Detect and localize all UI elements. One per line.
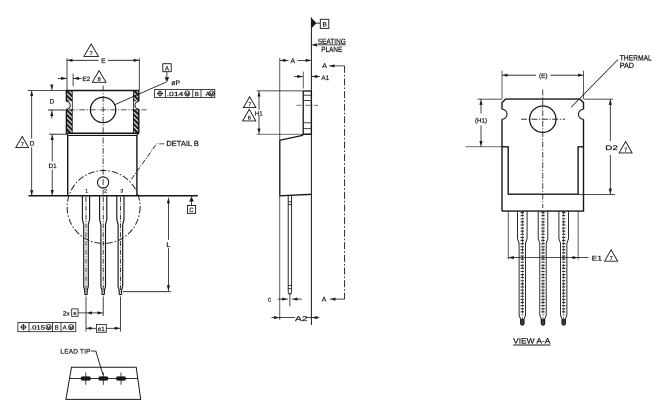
note triangle 7 (D) [16, 137, 29, 148]
mounting hole [90, 97, 115, 122]
svg-text:7: 7 [21, 142, 24, 148]
note triangle 7 (D2) [619, 142, 632, 153]
hole centerline in tab [297, 104, 319, 106]
datum A flag [163, 64, 171, 72]
note triangle 7 (E1) [605, 250, 618, 261]
detail B leader [131, 144, 165, 181]
svg-text:L: L [166, 242, 170, 249]
dimension D overall [31, 91, 33, 139]
vertical centerline [102, 86, 104, 195]
bottom view trapezoid [66, 367, 141, 399]
mounting hole [530, 106, 556, 132]
note triangle 7 (over E) [84, 44, 99, 56]
svg-text:A: A [291, 58, 296, 65]
dimension (H1) [478, 98, 503, 100]
svg-text:øP: øP [171, 80, 180, 87]
lead A-A 3 [559, 211, 569, 325]
svg-text:e: e [73, 311, 76, 317]
note triangle 8 (H1) [243, 109, 256, 121]
svg-text:E: E [101, 58, 106, 65]
lead cross-section 3 [116, 373, 127, 385]
horizontal centerline through hole [48, 109, 147, 111]
note triangle 7 (H1) [243, 97, 256, 108]
thermal pad leader [571, 60, 618, 108]
body bottom / datum C line [29, 195, 198, 197]
tab top extension to D dim [28, 90, 67, 92]
notch right [579, 109, 584, 119]
svg-text:D2: D2 [605, 145, 618, 152]
tab side profile [303, 91, 311, 134]
tab bottom edge [66, 132, 138, 134]
thermal pad outline [502, 147, 584, 194]
dimension L [167, 198, 169, 240]
lead tip leader [91, 351, 103, 375]
svg-text:2: 2 [104, 189, 107, 195]
body outline [66, 133, 138, 135]
svg-text:M: M [185, 91, 189, 96]
dimension H1 [257, 90, 303, 92]
svg-text:8: 8 [248, 116, 251, 122]
detail B circle (phantom) [67, 171, 140, 244]
svg-text:E2: E2 [82, 76, 90, 83]
lower plastic hole [98, 177, 109, 188]
notch left (white cut + arc) [66, 101, 73, 109]
svg-text:D1: D1 [49, 163, 58, 170]
svg-text:7: 7 [90, 51, 93, 57]
svg-text:A1: A1 [321, 75, 329, 82]
svg-text:B: B [55, 325, 59, 332]
lead extension lines below tips [85, 297, 87, 332]
svg-text:7: 7 [610, 256, 613, 262]
svg-text:M: M [210, 91, 214, 96]
svg-text:.015: .015 [30, 325, 46, 332]
lead cross-section 2 [98, 373, 109, 385]
svg-text:7: 7 [248, 102, 251, 108]
svg-text:8: 8 [98, 77, 101, 83]
svg-text:2x: 2x [63, 311, 70, 318]
lead 2 [100, 196, 107, 293]
leader to hole [115, 82, 167, 105]
svg-text:D: D [30, 140, 35, 147]
dimension (E) [501, 71, 503, 99]
tab hatched band right [133, 91, 138, 134]
vertical centerline [542, 90, 544, 209]
dimension E2 [72, 74, 74, 86]
lead side [288, 196, 291, 292]
svg-text:PLANE: PLANE [321, 45, 342, 54]
svg-text:PAD: PAD [620, 61, 635, 70]
svg-text:3: 3 [120, 189, 123, 195]
svg-text:A2: A2 [295, 316, 308, 323]
svg-text:B: B [195, 91, 199, 98]
datum C flag [189, 196, 194, 201]
svg-text:DETAIL B: DETAIL B [166, 139, 199, 148]
svg-text:7: 7 [624, 148, 627, 154]
section line A-A [344, 66, 346, 299]
lead 1 [82, 196, 89, 293]
notch right (white cut + arc) [132, 101, 139, 109]
horizontal centerline [521, 118, 565, 120]
svg-text:A: A [322, 63, 327, 70]
svg-text:.014: .014 [167, 91, 184, 98]
svg-text:LEAD TIP: LEAD TIP [60, 349, 90, 356]
body outline view A-A [502, 99, 584, 211]
dimension E [66, 58, 68, 90]
feature control frame (lead position) [18, 323, 76, 332]
lead 3 [117, 196, 124, 293]
body side profile [280, 135, 312, 196]
dimension E1 [507, 211, 509, 259]
L bottom extension [123, 291, 171, 293]
svg-text:H1: H1 [255, 110, 263, 117]
svg-text:M: M [47, 325, 51, 330]
svg-text:B: B [322, 22, 326, 29]
svg-text:M: M [69, 325, 73, 330]
bottom view mid line [70, 378, 138, 380]
lead shoulder marks [288, 201, 291, 203]
svg-text:C: C [189, 207, 194, 214]
lead A-A 2 [538, 211, 548, 325]
lead A-A 1 [518, 211, 528, 325]
svg-text:VIEW A-A: VIEW A-A [513, 336, 551, 345]
tab hatched band left [66, 91, 72, 134]
dimension D small (tab top to hole center) [51, 85, 53, 90]
dimension A1 [302, 72, 304, 89]
datum B flag [311, 18, 316, 29]
dimension D1 [49, 133, 66, 135]
tab outline [66, 91, 138, 134]
note triangle 8 (E2) [92, 71, 106, 83]
dimension e1 [86, 327, 96, 329]
dimension A [279, 58, 281, 320]
svg-text:1: 1 [85, 189, 88, 195]
seating plane line [310, 17, 312, 325]
tab inner band edges [71, 91, 73, 134]
svg-text:e1: e1 [98, 326, 106, 333]
svg-text:c: c [268, 296, 272, 303]
feature control frame (hole position) [155, 90, 215, 98]
svg-text:(E): (E) [539, 73, 548, 80]
svg-text:(H1): (H1) [475, 118, 487, 125]
lead cross-section 1 [80, 373, 91, 385]
dimension D2 [584, 98, 614, 100]
tab stripes [303, 94, 311, 96]
svg-text:A: A [322, 296, 327, 303]
svg-text:A: A [63, 325, 67, 332]
dimension A2 [272, 317, 280, 319]
notch left [502, 109, 507, 119]
tab bottom thick edge [303, 133, 311, 135]
svg-text:D: D [50, 99, 55, 106]
svg-text:E1: E1 [592, 256, 602, 263]
